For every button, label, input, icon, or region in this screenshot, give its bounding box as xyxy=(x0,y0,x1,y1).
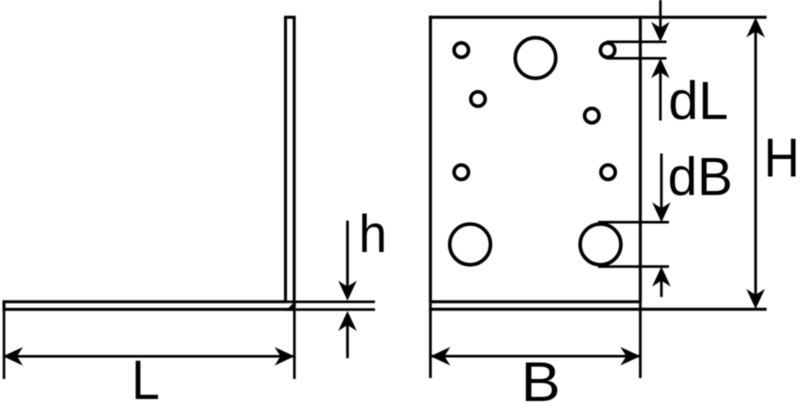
svg-text:B: B xyxy=(521,350,561,410)
svg-text:dL: dL xyxy=(668,72,728,131)
svg-text:H: H xyxy=(764,127,800,189)
svg-text:dB: dB xyxy=(668,148,733,207)
svg-text:h: h xyxy=(359,205,387,264)
svg-text:L: L xyxy=(132,348,160,410)
